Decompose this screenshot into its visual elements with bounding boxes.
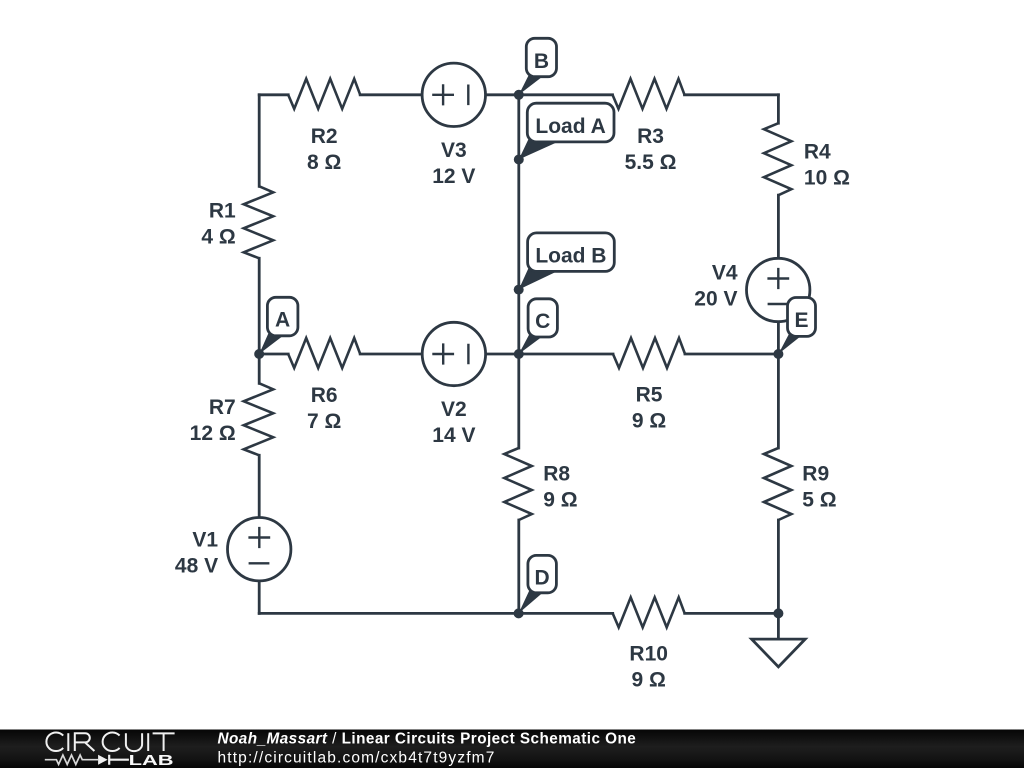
wire right rail: V4 bottom to node E [777, 323, 780, 354]
ground [752, 613, 806, 666]
resistor R7 [190, 383, 274, 455]
resistor R2 [288, 79, 360, 174]
svg-text:R4: R4 [804, 141, 831, 164]
svg-text:C: C [535, 310, 550, 333]
svg-text:A: A [275, 309, 290, 332]
svg-text:8 Ω: 8 Ω [307, 151, 341, 174]
svg-text:12 Ω: 12 Ω [190, 422, 236, 445]
voltage source V4 [694, 258, 810, 321]
wire left rail lower segment (R7 to V1 top) [258, 455, 261, 516]
svg-text:R9: R9 [802, 463, 829, 486]
svg-text:V4: V4 [712, 262, 738, 285]
svg-text:10 Ω: 10 Ω [804, 167, 850, 190]
CircuitLab logo diode [98, 755, 108, 765]
wire right rail: corner to R4 [777, 95, 780, 123]
node A flag [259, 297, 298, 354]
wire middle vertical: node B to node C [517, 95, 520, 354]
svg-text:V3: V3 [441, 139, 467, 162]
wire middle row: V2 to R5 (through node C) [487, 353, 613, 356]
svg-text:9 Ω: 9 Ω [543, 489, 577, 512]
resistor R4 [764, 123, 850, 195]
svg-text:R1: R1 [209, 200, 236, 223]
node Load B flag [519, 233, 615, 290]
voltage source V3 [422, 63, 485, 188]
wire bottom row: corner to node D [259, 612, 519, 615]
wire left rail top segment (corner to R1) [258, 95, 261, 187]
node B flag [519, 38, 557, 95]
node D flag [519, 555, 557, 613]
CircuitLab logo wordmark CIRCUIT (drawn strokes) [46, 732, 174, 751]
node E flag [778, 298, 815, 355]
footer bar [0, 730, 1024, 768]
svg-text:48 V: 48 V [175, 555, 218, 578]
wire middle row: R6 to V2 [360, 353, 421, 356]
resistor R6 [288, 338, 360, 433]
svg-text:E: E [794, 309, 808, 332]
node Load A flag [519, 103, 614, 159]
svg-text:14 V: 14 V [432, 424, 475, 447]
wire middle vertical: R8 to node D [517, 520, 520, 613]
wire left rail bottom segment (V1 bottom to corner) [258, 582, 261, 613]
svg-text:V1: V1 [192, 529, 218, 552]
svg-text:Noah_Massart / Linear Circuits: Noah_Massart / Linear Circuits Project S… [218, 730, 637, 747]
wire right rail: R4 to V4 top [777, 195, 780, 257]
resistor R5 [613, 338, 685, 433]
svg-text:7 Ω: 7 Ω [307, 410, 341, 433]
svg-text:Load B: Load B [535, 244, 606, 267]
svg-text:LAB: LAB [129, 753, 174, 768]
wire right rail: R9 to bottom-right corner [777, 520, 780, 613]
svg-text:R7: R7 [209, 396, 236, 419]
junction Load B dot [514, 285, 524, 295]
svg-text:R10: R10 [629, 642, 668, 665]
svg-text:5 Ω: 5 Ω [802, 489, 836, 512]
node C flag [519, 299, 558, 354]
wire left rail middle segment (R1 to R7 through node A) [258, 258, 261, 383]
resistor R8 [504, 448, 577, 520]
svg-text:9 Ω: 9 Ω [632, 668, 666, 691]
svg-text:V2: V2 [441, 398, 467, 421]
resistor R3 [613, 79, 685, 174]
junction node E dot [773, 349, 783, 359]
junction ground node dot [773, 608, 783, 618]
svg-text:B: B [534, 50, 549, 73]
wire middle vertical: node C to R8 [517, 354, 520, 448]
svg-text:R5: R5 [636, 384, 663, 407]
wire top row: V3 to R3 (through node B junction) [487, 93, 613, 96]
svg-text:R8: R8 [543, 463, 570, 486]
wire top row: R2 to V3 [360, 93, 421, 96]
svg-text:20 V: 20 V [694, 288, 737, 311]
svg-text:Load A: Load A [535, 115, 605, 138]
wire middle row: R5 to node E [685, 353, 778, 356]
CircuitLab logo mini schematic wire and resistor [45, 755, 98, 764]
svg-text:5.5 Ω: 5.5 Ω [625, 151, 677, 174]
wire top row: R3 to top-right corner [685, 93, 779, 96]
svg-text:http://circuitlab.com/cxb4t7t9: http://circuitlab.com/cxb4t7t9yzfm7 [218, 749, 496, 766]
resistor R1 [201, 186, 273, 258]
svg-text:9 Ω: 9 Ω [632, 410, 666, 433]
voltage source V1 [175, 518, 291, 581]
wire bottom row: R10 to bottom-right corner [685, 612, 779, 615]
junction Load A dot [514, 155, 524, 165]
wire bottom row: node D to R10 [519, 612, 613, 615]
voltage source V2 [422, 322, 485, 447]
wire right rail: node E to R9 [777, 354, 780, 448]
svg-text:D: D [535, 567, 550, 590]
junction node D dot [514, 608, 524, 618]
svg-text:R6: R6 [311, 384, 338, 407]
svg-text:R3: R3 [637, 125, 664, 148]
wire middle row: node A to R6 [259, 353, 288, 356]
wire top row: corner to R2 [259, 93, 288, 96]
junction node C dot [514, 349, 524, 359]
svg-text:R2: R2 [311, 125, 338, 148]
svg-text:4 Ω: 4 Ω [201, 226, 235, 249]
resistor R9 [764, 448, 837, 520]
junction node A dot [254, 349, 264, 359]
resistor R10 [613, 597, 685, 691]
junction node B dot [514, 90, 524, 100]
svg-text:12 V: 12 V [432, 165, 475, 188]
